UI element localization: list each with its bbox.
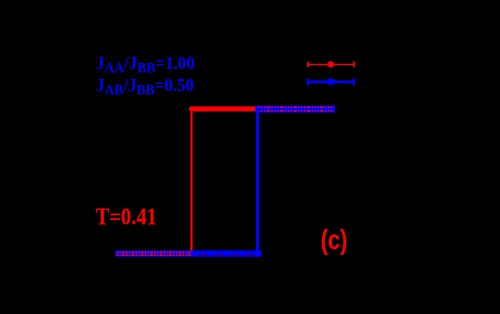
dark dot triplet 4	[246, 254, 254, 256]
red dashes over blue bottom row1	[117, 251, 192, 253]
legend errorbar red left cap	[307, 62, 309, 68]
red dashes over blue bottom row2	[117, 254, 192, 256]
legend errorbar blue line	[308, 81, 355, 84]
blue curve bottom segment	[115, 251, 261, 257]
legend errorbar red line	[308, 63, 355, 65]
dark dot triplet 1	[199, 254, 207, 256]
legend blue square marker	[328, 79, 335, 85]
dark dot triplet 2	[215, 254, 223, 256]
dark dot triplet 3	[231, 254, 239, 256]
red curve vertical jump	[190, 107, 192, 253]
svg-text:(c): (c)	[321, 225, 348, 256]
legend errorbar blue left cap	[307, 79, 309, 85]
red dashes over blue top row2	[258, 110, 334, 112]
blue curve vertical jump	[256, 108, 259, 254]
legend errorbar red right cap	[353, 62, 355, 68]
legend red circle marker	[328, 61, 334, 67]
blue curve top segment	[255, 106, 335, 113]
red curve top segment	[192, 106, 257, 111]
red dashes over blue top row1	[258, 106, 334, 108]
svg-text:T=0.41: T=0.41	[96, 203, 157, 230]
legend errorbar blue right cap	[353, 79, 355, 85]
